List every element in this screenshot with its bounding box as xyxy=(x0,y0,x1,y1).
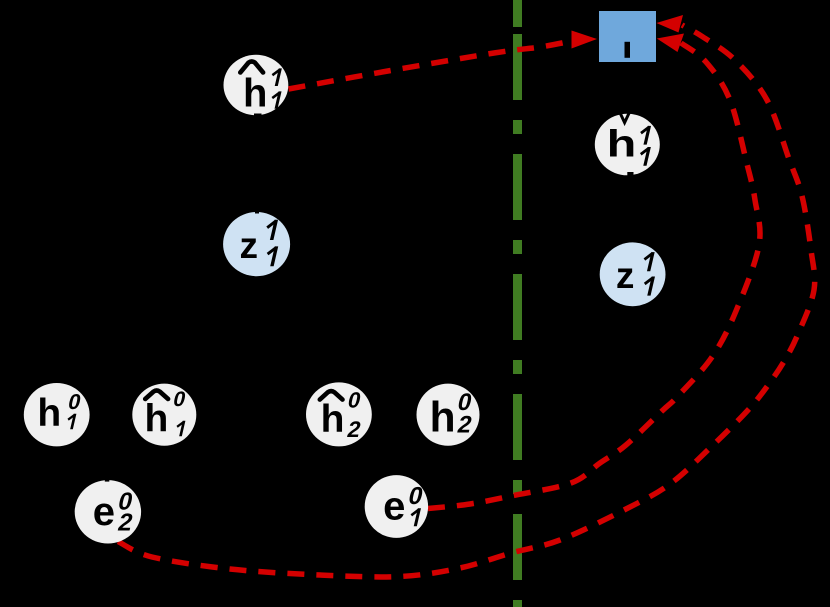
svg-text:z: z xyxy=(616,255,635,296)
svg-text:e: e xyxy=(93,490,115,534)
svg-text:h: h xyxy=(243,72,267,116)
svg-text:h: h xyxy=(144,398,168,441)
svg-text:h: h xyxy=(430,395,456,442)
svg-text:h: h xyxy=(607,123,637,166)
svg-text:h: h xyxy=(321,398,345,441)
svg-text:e: e xyxy=(383,485,405,529)
svg-text:h: h xyxy=(37,392,61,435)
svg-text:z: z xyxy=(240,225,259,266)
